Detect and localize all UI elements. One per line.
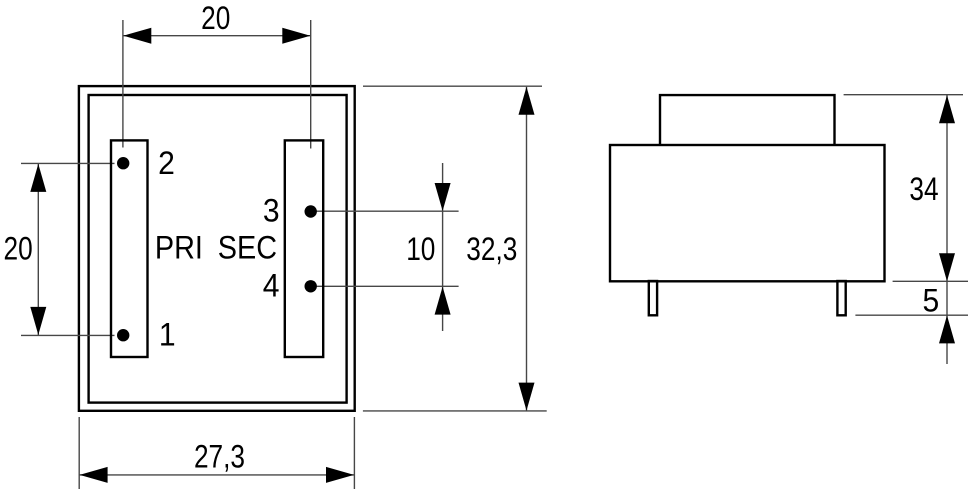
svg-text:2: 2 xyxy=(158,145,175,181)
svg-text:32,3: 32,3 xyxy=(466,233,517,268)
dimension 27,3: left extension line xyxy=(78,417,80,489)
dimension 20 top: right arrowhead xyxy=(282,28,310,44)
dimension 20 top: left arrowhead xyxy=(123,28,151,44)
dimension 10 right: lower extension line xyxy=(317,285,459,287)
dimension 20 left: upper extension line xyxy=(21,162,115,164)
pin 4 solder dot xyxy=(305,280,317,292)
svg-text:20: 20 xyxy=(201,2,230,37)
dimension 20 left: down arrowhead xyxy=(30,307,46,335)
svg-text:SEC: SEC xyxy=(218,230,277,266)
dimension 34: up arrowhead xyxy=(939,95,955,123)
svg-text:5: 5 xyxy=(923,283,940,319)
svg-text:10: 10 xyxy=(406,233,435,268)
dimension 34: top extension line xyxy=(844,94,963,96)
dimension 20 top: dimension line xyxy=(123,35,311,37)
pin 2 solder dot xyxy=(117,157,129,169)
side-view top cap xyxy=(660,95,835,144)
dimension 27,3: right extension line xyxy=(353,417,355,489)
transformer top-view inner case line xyxy=(89,95,347,403)
dimension 20 left: dimension line xyxy=(37,163,39,335)
dimension 20 left: lower extension line xyxy=(21,334,115,336)
dimension 10 right: upper arrowhead pointing down xyxy=(435,183,451,211)
transformer top-view outer case xyxy=(79,86,355,411)
svg-text:34: 34 xyxy=(909,173,938,208)
dimension 20 top: right extension line xyxy=(310,20,312,149)
svg-text:PRI: PRI xyxy=(155,230,203,266)
dimension 10 right: upper extension line xyxy=(317,210,459,212)
dimension 32,3: top extension line xyxy=(363,85,542,87)
svg-text:20: 20 xyxy=(4,232,33,267)
svg-text:3: 3 xyxy=(263,193,280,229)
side-view left pin xyxy=(649,281,657,315)
dimension 32,3: bottom extension line xyxy=(363,410,547,412)
dimension 20 top: left extension line xyxy=(122,20,124,148)
svg-text:4: 4 xyxy=(263,268,280,304)
svg-text:27,3: 27,3 xyxy=(194,440,245,475)
dimension 32,3: dimension line xyxy=(526,87,528,411)
dimension 34: dimension line xyxy=(946,95,948,281)
side-view right pin xyxy=(837,281,845,315)
dimension 5: upper extension line xyxy=(893,280,968,282)
dimension 5: lower extension line xyxy=(855,314,968,316)
dimension 34: down arrowhead xyxy=(939,253,955,281)
dimension 10 right: upper leader line xyxy=(442,163,444,331)
pin 1 solder dot xyxy=(117,329,129,341)
side-view body xyxy=(610,145,885,281)
dimension 5: lower arrowhead pointing up xyxy=(939,315,955,343)
secondary pin strip xyxy=(285,140,323,357)
dimension 27,3: dimension line xyxy=(79,474,354,476)
dimension 27,3: right arrowhead xyxy=(326,467,354,483)
dimension 27,3: left arrowhead xyxy=(80,467,108,483)
dimension 20 left: up arrowhead xyxy=(30,164,46,192)
dimension 5: between-lines segment xyxy=(946,281,948,315)
dimension 10 right: lower arrowhead pointing up xyxy=(435,287,451,315)
dimension 32,3: up arrowhead xyxy=(519,87,535,115)
svg-text:1: 1 xyxy=(159,317,176,353)
primary pin strip xyxy=(111,140,148,357)
pin 3 solder dot xyxy=(305,205,317,217)
dimension 32,3: down arrowhead xyxy=(519,383,535,411)
dimension 5: lower leader line xyxy=(946,315,948,364)
